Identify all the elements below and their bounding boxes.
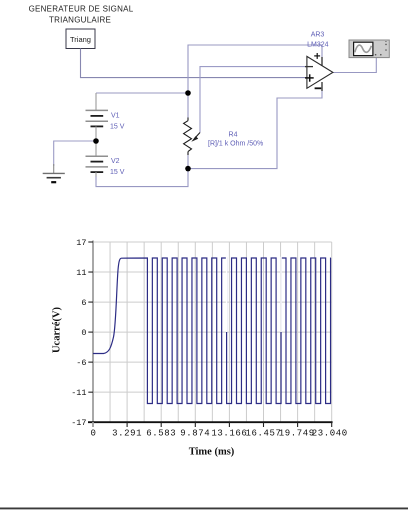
chart: horizontal grid lines xyxy=(93,242,332,392)
svg-text:0: 0 xyxy=(90,429,96,439)
svg-text:15 V: 15 V xyxy=(110,169,125,176)
wire battery mid junction to ground xyxy=(54,141,96,166)
wiper arrow of R4 xyxy=(191,133,200,142)
svg-text:17: 17 xyxy=(76,238,86,248)
wire resistor top lead xyxy=(187,93,189,118)
pin V- lead xyxy=(321,82,323,91)
page bottom rule xyxy=(0,507,408,509)
wire resistor bottom lead xyxy=(187,153,189,169)
resistor R4 (potentiometer) xyxy=(184,118,192,156)
glyph plus (non-inverting input) xyxy=(305,77,314,79)
svg-text:19.749: 19.749 xyxy=(279,429,315,439)
svg-text:9.874: 9.874 xyxy=(180,429,210,439)
svg-text:-17: -17 xyxy=(71,418,86,428)
svg-text:V2: V2 xyxy=(111,158,120,165)
chart: x axis major ticks xyxy=(127,422,332,427)
junction node between batteries xyxy=(93,138,99,144)
waveform glitch gap 2 xyxy=(280,257,282,332)
wire wiper to op-amp - input xyxy=(200,67,307,133)
svg-text:LM324: LM324 xyxy=(307,41,329,48)
svg-text:6.583: 6.583 xyxy=(146,429,176,439)
svg-text:R4: R4 xyxy=(229,132,238,139)
generator Triang box xyxy=(66,29,95,49)
svg-text:23.040: 23.040 xyxy=(312,429,348,439)
svg-text:-6: -6 xyxy=(76,358,86,368)
ground xyxy=(43,164,65,182)
glyph minus (inverting input) xyxy=(305,66,313,68)
svg-text:3.291: 3.291 xyxy=(112,429,142,439)
svg-text:Time (ms): Time (ms) xyxy=(189,447,235,458)
svg-text:6: 6 xyxy=(81,298,86,308)
op-amp AR3 LM324 xyxy=(305,53,333,91)
svg-text:GENERATEUR DE SIGNAL: GENERATEUR DE SIGNAL xyxy=(29,5,134,14)
battery V2 xyxy=(86,141,109,177)
waveform glitch gap 1 xyxy=(226,257,228,332)
glyph minus (V- pin) xyxy=(315,87,322,89)
svg-text:TRIANGULAIRE: TRIANGULAIRE xyxy=(49,16,111,25)
chart: x axis line xyxy=(88,421,333,423)
svg-text:Ucarré(V): Ucarré(V) xyxy=(52,306,63,353)
chart: x tick labels xyxy=(90,429,347,439)
battery V1 xyxy=(86,93,109,141)
wire op-amp output to scope xyxy=(333,58,376,73)
chart: y axis tail below x axis xyxy=(92,422,94,427)
svg-text:0: 0 xyxy=(81,328,86,338)
wire Triang output to op-amp + input xyxy=(81,49,307,78)
svg-text:V1: V1 xyxy=(111,112,120,119)
svg-text:16.457: 16.457 xyxy=(245,429,281,439)
chart: vertical grid lines xyxy=(110,242,332,422)
svg-text:15 V: 15 V xyxy=(110,123,125,130)
chart: y axis line xyxy=(92,241,94,427)
svg-text:AR3: AR3 xyxy=(311,32,325,39)
svg-text:Triang: Triang xyxy=(70,35,91,44)
junction node at resistor bottom xyxy=(185,166,191,172)
chart: y axis ticks xyxy=(88,242,93,422)
wire op-amp V- pin to resistor bottom junction xyxy=(188,91,322,169)
svg-text:11: 11 xyxy=(76,268,86,278)
wire node V+ : resistor-top junction up and right to op-amp V+ pin xyxy=(188,45,322,93)
glyph plus (V+ pin) xyxy=(314,55,320,57)
wire V2 bottom rail to resistor bottom junction xyxy=(96,169,188,187)
chart: y tick labels xyxy=(71,238,86,428)
svg-text:[R]/1 k Ohm /50%: [R]/1 k Ohm /50% xyxy=(208,141,263,148)
wire V1 top to junction xyxy=(96,92,188,94)
junction node at resistor top xyxy=(185,90,191,96)
oscilloscope instrument xyxy=(349,40,389,58)
svg-text:-11: -11 xyxy=(71,388,86,398)
svg-text:13.166: 13.166 xyxy=(211,429,247,439)
waveform square wave trace xyxy=(93,258,331,404)
pin V+ lead xyxy=(321,57,323,66)
